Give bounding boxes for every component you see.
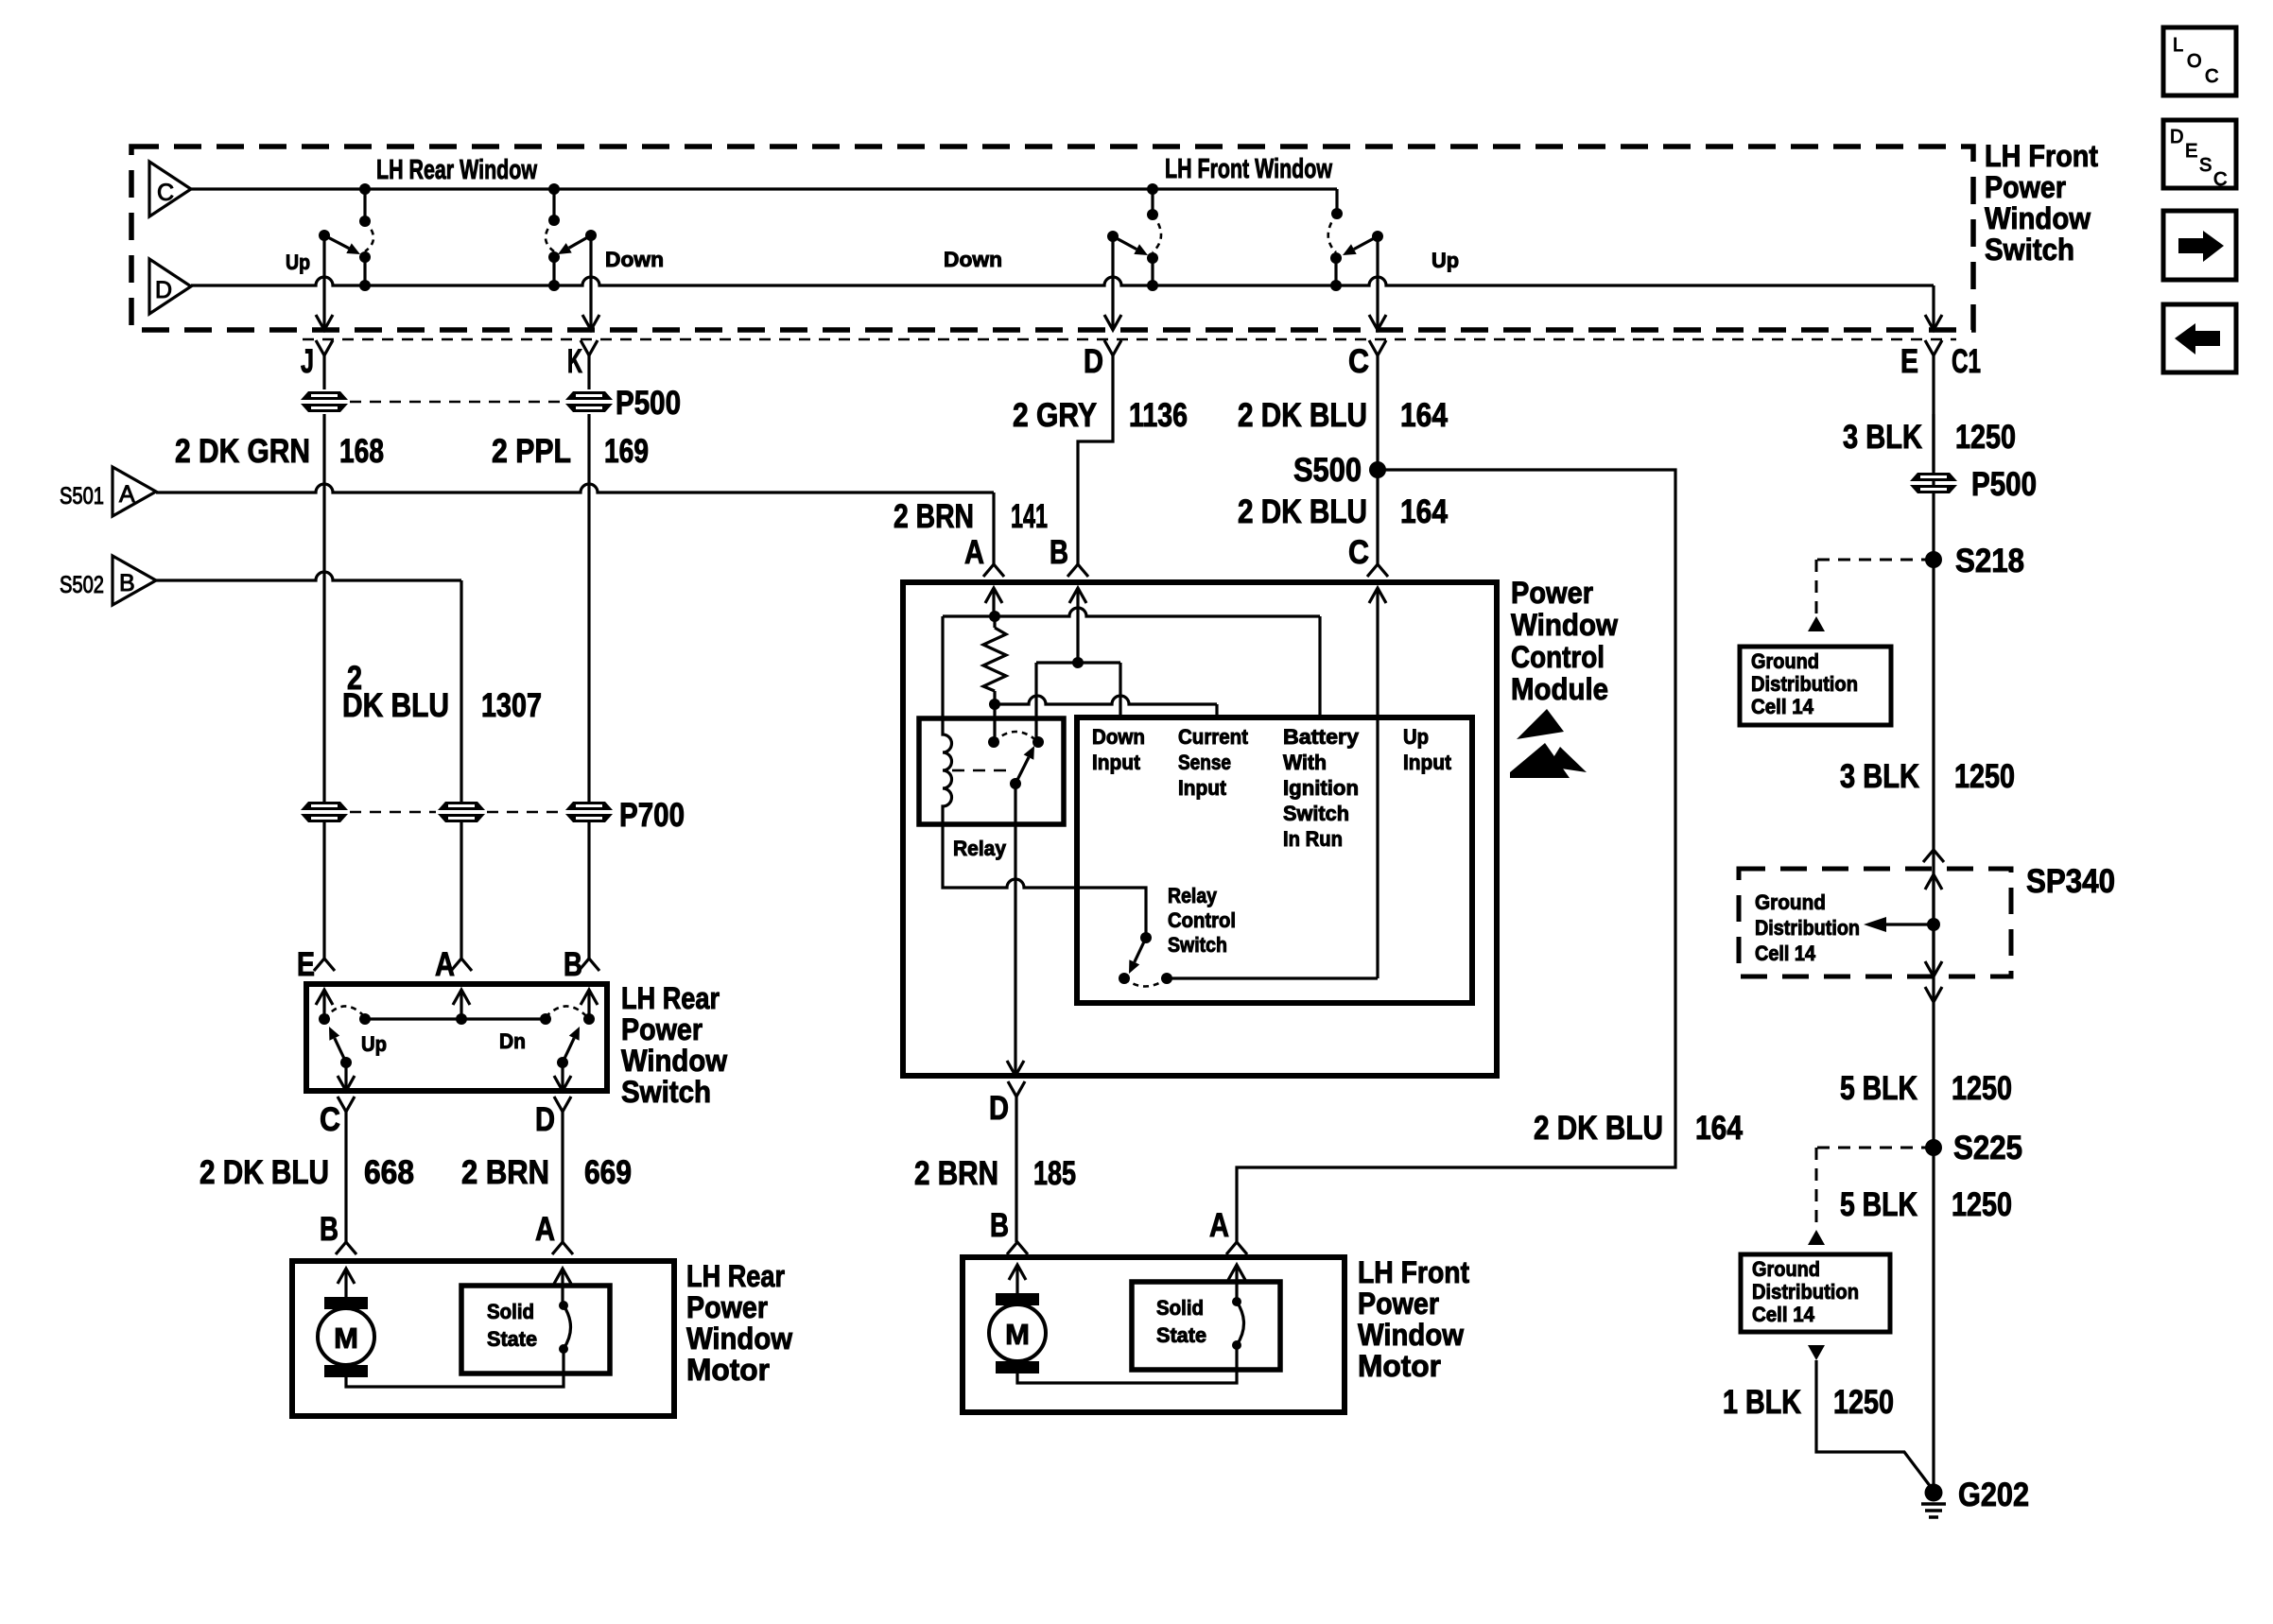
svg-text:Motor: Motor [686, 1353, 770, 1387]
arrow right box [2163, 211, 2236, 280]
connector P700 (3) [565, 802, 613, 822]
svg-text:Window: Window [686, 1322, 792, 1356]
svg-text:M: M [334, 1322, 358, 1355]
svg-text:168: 168 [339, 433, 384, 470]
rear switch pin E [314, 959, 335, 971]
svg-text:LH Rear: LH Rear [686, 1259, 785, 1293]
svg-text:C1: C1 [1952, 343, 1981, 380]
svg-text:2 GRY: 2 GRY [1013, 397, 1097, 434]
svg-text:SP340: SP340 [2026, 863, 2115, 900]
svg-text:Switch: Switch [1985, 233, 2074, 267]
wires P700 to rear switch [322, 822, 325, 959]
svg-text:Power: Power [1511, 576, 1593, 610]
DESC box [2163, 120, 2236, 188]
svg-text:S500: S500 [1293, 452, 1362, 489]
svg-text:Switch: Switch [1283, 802, 1349, 825]
svg-text:Input: Input [1178, 776, 1227, 800]
svg-text:169: 169 [604, 433, 649, 470]
module pin B [1067, 564, 1088, 577]
svg-text:Power: Power [621, 1012, 703, 1046]
svg-text:2 DK BLU: 2 DK BLU [1238, 397, 1367, 434]
pin J of C1 connector [316, 340, 333, 355]
svg-text:E: E [297, 946, 315, 983]
svg-text:Cell 14: Cell 14 [1752, 1303, 1815, 1326]
dashed link P500 [350, 401, 564, 404]
svg-text:1250: 1250 [1954, 758, 2015, 795]
svg-text:Ground: Ground [1751, 649, 1819, 673]
connector P500 (K) [565, 391, 613, 412]
svg-text:Window: Window [1358, 1318, 1464, 1352]
svg-text:Battery: Battery [1283, 725, 1360, 749]
svg-text:State: State [487, 1327, 537, 1351]
svg-text:Motor: Motor [1358, 1349, 1441, 1383]
svg-text:S: S [2199, 155, 2212, 176]
svg-text:2 BRN: 2 BRN [914, 1155, 998, 1192]
svg-text:Distribution: Distribution [1755, 916, 1860, 940]
svg-text:G202: G202 [1958, 1477, 2029, 1513]
svg-text:164: 164 [1695, 1110, 1743, 1147]
rear switch pin A [451, 959, 472, 971]
module pin C [1367, 564, 1388, 577]
svg-text:LH Front: LH Front [1985, 139, 2098, 173]
wire E/C1 down [1932, 414, 1935, 1493]
LH Rear Power Window Switch box [306, 984, 607, 1091]
svg-text:LH Front Window: LH Front Window [1165, 154, 1332, 184]
svg-text:C: C [1348, 343, 1369, 380]
rear switch pin D [554, 1097, 571, 1112]
SP340 dashed box [1739, 869, 2011, 976]
svg-text:2 BRN: 2 BRN [461, 1154, 549, 1191]
rear switch pin B [579, 959, 599, 971]
svg-text:Sense: Sense [1178, 751, 1231, 774]
LH Front Power Window Motor box [963, 1257, 1345, 1412]
svg-text:2 PPL: 2 PPL [492, 433, 571, 470]
svg-text:5 BLK: 5 BLK [1840, 1070, 1917, 1107]
Ground Distribution Cell 14 box 1 [1740, 647, 1891, 725]
svg-text:E: E [2185, 141, 2197, 162]
module pin D [1008, 1081, 1025, 1097]
svg-text:Up: Up [1403, 725, 1429, 749]
front motor pin A [1226, 1242, 1247, 1254]
bar under pin B [1072, 657, 1084, 668]
svg-text:D: D [535, 1101, 555, 1138]
svg-text:D: D [1084, 343, 1103, 380]
wire S502-B to rear switch pin A [156, 572, 461, 580]
switch LH Rear Up [359, 183, 371, 195]
svg-text:A: A [535, 1211, 555, 1248]
svg-text:Window: Window [1511, 608, 1618, 642]
rear motor bottom wire [346, 1349, 564, 1387]
svg-text:185: 185 [1033, 1155, 1076, 1192]
svg-text:A: A [964, 534, 984, 571]
svg-text:164: 164 [1400, 493, 1448, 530]
svg-text:C: C [157, 180, 174, 206]
front motor bottom wire [1017, 1345, 1237, 1383]
connector P500 (J) [301, 391, 348, 412]
module internal rail y=745 [995, 696, 1217, 704]
svg-text:1 BLK: 1 BLK [1723, 1384, 1801, 1421]
svg-text:Up: Up [1431, 249, 1459, 272]
svg-text:S225: S225 [1953, 1130, 2022, 1166]
svg-text:B: B [1050, 534, 1068, 571]
svg-text:Dn: Dn [499, 1029, 526, 1053]
wire K down [587, 414, 590, 802]
splice S218 [1925, 551, 1942, 568]
svg-text:Ground: Ground [1752, 1257, 1820, 1281]
svg-text:2 DK GRN: 2 DK GRN [175, 433, 310, 470]
svg-text:K: K [567, 343, 582, 380]
svg-text:B: B [320, 1211, 338, 1248]
svg-text:C: C [2205, 66, 2218, 87]
svg-text:B: B [564, 946, 582, 983]
svg-text:668: 668 [364, 1154, 414, 1191]
connector P700 (2) [438, 802, 485, 822]
relay contacts [988, 736, 999, 748]
svg-text:Cell 14: Cell 14 [1751, 695, 1814, 718]
input triangle D [149, 259, 191, 314]
dashed branch to ground distribution 2 [1816, 1147, 1934, 1149]
svg-text:Switch: Switch [621, 1075, 711, 1109]
svg-text:3 BLK: 3 BLK [1840, 758, 1919, 795]
splice S225 [1925, 1139, 1942, 1156]
svg-text:LH Rear Window: LH Rear Window [376, 155, 537, 185]
svg-text:1250: 1250 [1955, 419, 2016, 456]
wire D jog [1078, 355, 1113, 564]
svg-text:C: C [2213, 169, 2227, 190]
svg-text:Power: Power [1985, 170, 2066, 204]
wire: C rail [191, 187, 1337, 190]
svg-text:Control: Control [1511, 640, 1605, 674]
LOC box [2163, 27, 2236, 95]
switch LH Rear Down [548, 183, 560, 195]
module inner box [1077, 717, 1472, 1003]
relay coil [943, 718, 952, 824]
module pin A [983, 564, 1004, 577]
svg-text:A: A [1209, 1207, 1229, 1244]
svg-text:B: B [990, 1207, 1009, 1244]
pin E of C1 connector [1925, 340, 1942, 355]
svg-text:5 BLK: 5 BLK [1840, 1186, 1917, 1223]
svg-text:Window: Window [621, 1044, 727, 1078]
rear motor pin A [552, 1242, 573, 1254]
svg-text:Distribution: Distribution [1751, 672, 1858, 696]
input triangle S502 B [113, 556, 156, 605]
svg-text:Window: Window [1985, 201, 2091, 235]
svg-text:D: D [2170, 127, 2183, 147]
connector C1 line (thin dashed) [303, 338, 1956, 340]
rear motor M [338, 1269, 355, 1284]
svg-text:Solid: Solid [1156, 1296, 1204, 1320]
dashed branch to ground distribution 1 [1816, 559, 1934, 561]
svg-text:2 DK BLU: 2 DK BLU [1238, 493, 1367, 530]
svg-text:Switch: Switch [1168, 933, 1227, 957]
pin K of C1 connector [581, 340, 598, 355]
svg-text:2 DK BLU: 2 DK BLU [200, 1154, 329, 1191]
svg-text:Input: Input [1092, 751, 1141, 774]
svg-text:1250: 1250 [1833, 1384, 1894, 1421]
svg-text:J: J [301, 343, 314, 380]
rear motor pin B [336, 1242, 356, 1254]
ground G202 [1925, 1484, 1943, 1502]
svg-text:S502: S502 [60, 572, 104, 598]
svg-text:C: C [320, 1101, 340, 1138]
svg-text:S218: S218 [1955, 543, 2024, 579]
pin C of C1 connector [1369, 340, 1386, 355]
wire S500 to LH front motor pin A [1237, 470, 1675, 1242]
svg-text:A: A [119, 481, 135, 508]
svg-text:Down: Down [1092, 725, 1145, 749]
svg-text:Input: Input [1403, 751, 1452, 774]
svg-text:Up: Up [286, 251, 310, 274]
arrow left box [2163, 304, 2236, 372]
rear motor solid state [461, 1286, 610, 1373]
input triangle S501 A [113, 467, 156, 516]
svg-text:S501: S501 [60, 483, 104, 510]
svg-text:C: C [1348, 534, 1369, 571]
front motor solid state [1132, 1282, 1280, 1370]
front motor pin B [1007, 1242, 1028, 1254]
svg-text:D: D [155, 277, 172, 303]
relay common to pin D [1014, 784, 1016, 1076]
svg-text:In Run: In Run [1283, 827, 1343, 851]
svg-text:P500: P500 [616, 385, 681, 422]
svg-text:2 DK BLU: 2 DK BLU [1534, 1110, 1663, 1147]
svg-text:Solid: Solid [487, 1300, 534, 1323]
connector P700 (1) [301, 802, 348, 822]
svg-text:M: M [1005, 1318, 1030, 1351]
splice pin into SP340 [1923, 850, 1944, 862]
switch LH Front Down [1147, 183, 1158, 195]
svg-text:1250: 1250 [1952, 1186, 2012, 1223]
wire S501-A to module pin A [156, 484, 994, 492]
Ground Distribution Cell 14 box 2 [1741, 1254, 1890, 1332]
svg-text:Down: Down [605, 248, 664, 271]
svg-text:With: With [1283, 751, 1327, 774]
svg-text:Relay: Relay [1168, 884, 1218, 907]
svg-text:141: 141 [1011, 498, 1048, 535]
wire J down [322, 414, 325, 802]
svg-text:State: State [1156, 1323, 1206, 1347]
svg-text:Down: Down [944, 248, 1002, 271]
svg-text:1136: 1136 [1129, 397, 1188, 434]
connector P500 (right) [1910, 473, 1957, 493]
svg-text:Ground: Ground [1755, 890, 1826, 914]
svg-text:1307: 1307 [481, 687, 542, 724]
svg-text:164: 164 [1400, 397, 1448, 434]
resistor (module) [993, 616, 996, 628]
svg-text:Current: Current [1178, 725, 1249, 749]
pin D of C1 connector [1104, 340, 1121, 355]
LH Rear Power Window Motor box [292, 1261, 674, 1416]
svg-text:3 BLK: 3 BLK [1843, 419, 1922, 456]
svg-text:Module: Module [1511, 672, 1608, 706]
wire D to motor A [561, 1112, 564, 1242]
svg-text:Power: Power [1358, 1287, 1439, 1321]
wire ground box 2 to G202 [1816, 1360, 1934, 1491]
switch LH Front Up [1335, 189, 1338, 214]
LH Front Power Window Switch (dashed box) [131, 147, 1973, 330]
svg-text:Ignition: Ignition [1283, 776, 1359, 800]
wire coil to RCS pivot [943, 824, 1146, 938]
svg-text:Control: Control [1168, 908, 1236, 932]
arrow to Ground Distribution [1886, 923, 1934, 925]
svg-text:669: 669 [584, 1154, 632, 1191]
rear switch pin C [338, 1097, 355, 1112]
svg-text:E: E [1900, 343, 1918, 380]
input triangle C [149, 162, 191, 216]
svg-text:Up: Up [361, 1032, 387, 1056]
ESD symbol [1517, 709, 1564, 739]
front motor M [1009, 1265, 1026, 1280]
svg-text:L: L [2173, 35, 2183, 56]
svg-text:O: O [2187, 51, 2202, 72]
svg-text:1250: 1250 [1952, 1070, 2012, 1107]
Power Window Control Module box [903, 582, 1497, 1076]
svg-text:LH Front: LH Front [1358, 1255, 1469, 1289]
svg-text:Relay: Relay [953, 837, 1007, 860]
splice S500 [1369, 461, 1386, 478]
rear switch internals [319, 1013, 330, 1025]
svg-text:P700: P700 [619, 797, 685, 834]
svg-text:B: B [119, 570, 135, 596]
svg-text:DK BLU: DK BLU [342, 687, 449, 724]
svg-text:Cell 14: Cell 14 [1755, 942, 1816, 965]
svg-text:2 BRN: 2 BRN [894, 498, 974, 535]
svg-text:P500: P500 [1971, 466, 2037, 503]
module internal rail y=652 [943, 608, 1320, 616]
relay mech link (dashed) [952, 769, 1010, 772]
svg-text:LH Rear: LH Rear [621, 981, 720, 1015]
relay box [919, 718, 1064, 824]
svg-text:Distribution: Distribution [1752, 1280, 1859, 1304]
wire: D rail with hops [191, 277, 1934, 285]
wire: E drop to pin [1932, 285, 1935, 330]
svg-text:A: A [435, 946, 455, 983]
wire C to motor B [344, 1112, 347, 1242]
svg-text:D: D [989, 1090, 1009, 1127]
svg-text:Power: Power [686, 1290, 768, 1324]
